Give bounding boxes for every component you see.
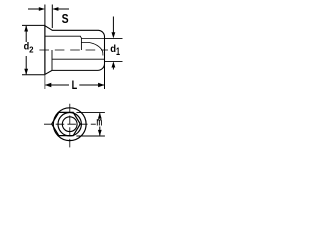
wire: thread minor line with runout hook (81, 42, 103, 55)
arrowhead: L left (pointing left) (45, 83, 51, 87)
wire: d1 top extension line (105, 38, 123, 40)
node: front view middle circle d1 (58, 113, 81, 136)
wire: S right leader (54, 8, 70, 10)
arrowhead: m bottom (pointing down) (98, 130, 102, 136)
arrowhead: d1 bottom (pointing up) (112, 61, 116, 67)
arrowhead: m top (pointing up) (98, 113, 102, 119)
wire: S right extension line (51, 5, 53, 29)
wire: head cone edge vertical (bottom half) (51, 50, 53, 71)
wire: d2 bottom extension line (22, 74, 45, 76)
wire: bore top line (section) (45, 35, 81, 37)
svg-text:L: L (72, 78, 78, 92)
wire: d2 top extension line (22, 24, 45, 26)
svg-text:2: 2 (29, 45, 34, 55)
wire: S left leader (28, 8, 44, 10)
arrowhead: d1 top (pointing down) (112, 32, 116, 38)
wire: m dimension line upper (99, 113, 101, 118)
arrowhead: S left (pointing right) (39, 7, 45, 11)
arrowhead: L right (pointing right) (98, 83, 104, 87)
wire: centerline of side view (dashed) (39, 49, 108, 51)
wire: L right extension (body edge extended down) (104, 64, 106, 89)
wire: d1 bottom arrow shaft (112, 66, 114, 70)
wire: L dimension line left (46, 84, 70, 86)
arrowhead: d2 bottom (pointing down) (24, 69, 28, 75)
node: front view outer circle d2 (53, 108, 86, 141)
svg-text:m: m (96, 116, 102, 128)
wire: d2 dimension line upper segment (25, 26, 27, 42)
wire: m top extension line (76, 112, 105, 114)
wire: d1 top arrow shaft (112, 17, 114, 34)
wire: d1 bottom extension line (105, 60, 123, 62)
node: rivet nut body outline (side view) (45, 26, 105, 75)
arrowhead: S right (pointing left) (52, 7, 58, 11)
wire: m bottom extension line (76, 135, 105, 137)
node: front view hexagon (52, 112, 81, 135)
wire: hex edge line (exterior bottom half) (52, 58, 104, 60)
wire: m dimension line lower (99, 127, 101, 136)
wire: L left extension (head face extended down) (44, 26, 46, 75)
wire: d2 dimension line lower segment (25, 56, 27, 74)
wire: thread major line (81, 38, 104, 40)
node: front view inner thread circle (62, 117, 77, 132)
wire: front view horizontal centerline (44, 123, 96, 125)
wire: S left extension line (head face extended up) (44, 5, 46, 26)
svg-text:S: S (62, 12, 69, 26)
wire: thread step chamfer and vertical (80, 36, 81, 50)
wire: front view vertical centerline (69, 104, 71, 148)
arrowhead: d2 top (pointing up) (24, 25, 28, 31)
svg-text:1: 1 (116, 46, 120, 58)
wire: L dimension line right (79, 84, 104, 86)
